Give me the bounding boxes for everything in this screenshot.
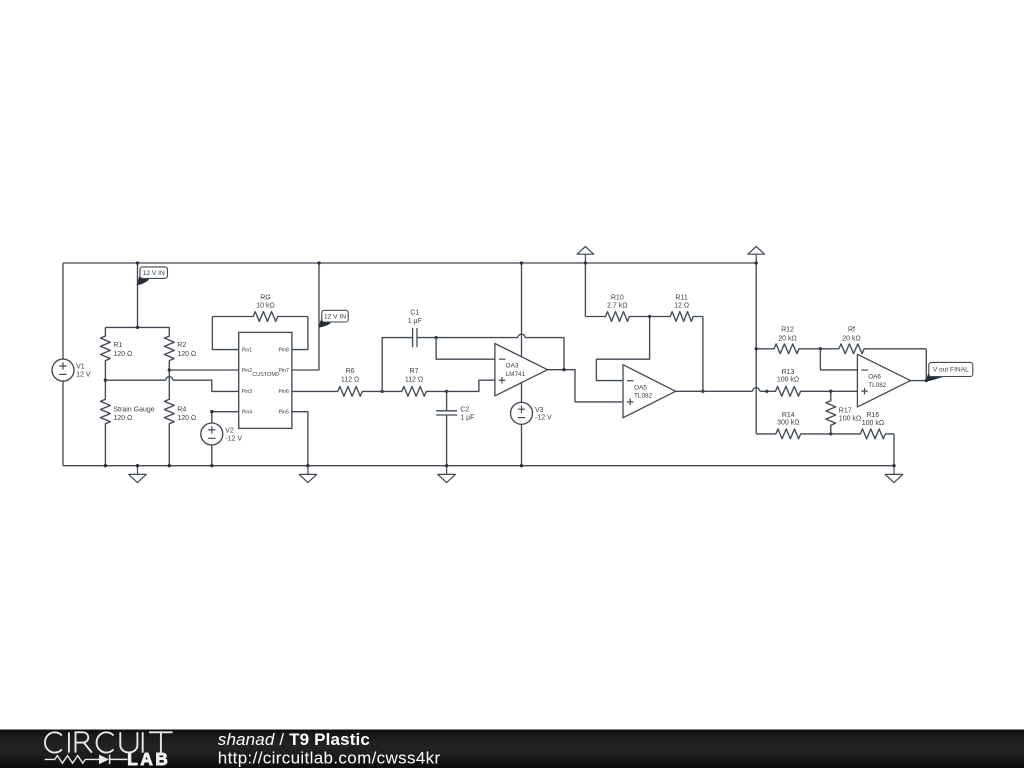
wire Pin4 to V2 [212,412,239,423]
ground (Pin5) [299,466,317,483]
node pwr flag left [584,261,587,264]
svg-text:12 V IN: 12 V IN [143,270,165,277]
wire 12V IN drop to bridge [137,263,139,327]
svg-text:R13: R13 [782,369,795,376]
wire to OA3 plus [447,380,495,391]
svg-text:R14: R14 [782,412,795,419]
wire V2 minus to bottom rail [211,445,213,466]
wire R12 node to OA6 minus [820,349,857,370]
svg-text:120 Ω: 120 Ω [113,415,132,422]
node Pin7 net / top rail [317,261,320,264]
capacitor C2 [446,391,448,410]
wire C1 branch up [382,338,412,392]
voltage source V2 [201,423,223,445]
svg-text:C2: C2 [460,407,469,414]
capacitor C1 [413,328,417,347]
wire left branch from V1 to top rail [62,263,64,359]
svg-text:Rf: Rf [848,326,855,333]
svg-text:LAB: LAB [127,749,170,768]
op-amp OA6 [857,354,910,407]
wire Pin7 to 12V IN [292,263,319,370]
resistor R1 [101,327,111,380]
wire C1 to OA3 minus [436,338,495,360]
svg-text:100 kΩ: 100 kΩ [839,415,861,422]
svg-text:LM741: LM741 [506,371,526,378]
svg-text:10 kΩ: 10 kΩ [256,303,274,310]
wire bottom ground rail [63,465,894,467]
svg-text:R2: R2 [177,342,186,349]
resistor R7 [382,387,446,397]
resistor R17 (vertical) [826,391,836,434]
wire Rf feedback down to OA6 out [925,349,927,381]
resistor R10 [585,312,649,322]
node R17/R14 [829,432,832,435]
node R12/Rf/OA6- [819,347,822,350]
ground (right) [885,466,903,483]
footer bar background [0,730,1024,768]
svg-text:2.7 kΩ: 2.7 kΩ [607,303,627,310]
svg-text:300 kΩ: 300 kΩ [777,419,799,426]
wire R11 down to OA5 output [702,317,704,392]
svg-text:112 Ω: 112 Ω [341,376,359,383]
flag 12 V IN (left) [137,273,149,285]
node R11/OA5 out [701,390,704,393]
svg-text:120 Ω: 120 Ω [113,351,132,358]
wire OA3 V+ from top rail [521,263,523,357]
svg-text:shanad / T9 Plastic: shanad / T9 Plastic [218,730,370,749]
wire rail to R10 [584,263,586,317]
flag V out FINAL [926,371,946,381]
node Pin5/bottom rail [306,464,309,467]
node R16/bottom rail [892,464,895,467]
node OA3 V+/top rail [520,261,523,264]
wire bridge left output to Pin3 (hops R2 column) [105,380,238,391]
svg-text:1 µF: 1 µF [460,414,474,421]
node top rail / 12V drop [136,261,139,264]
logo resistor squiggle [45,756,99,764]
svg-text:-12 V: -12 V [225,435,242,442]
resistor Rf [820,344,926,354]
wire V1 minus to bottom rail [62,381,64,466]
resistor R14 [756,429,831,439]
node R2/R4 junction [168,368,171,371]
svg-text:http://circuitlab.com/cwss4kr: http://circuitlab.com/cwss4kr [218,748,441,767]
resistor R11 [650,312,703,322]
node R6/R7/C1 [381,390,384,393]
resistor R2 [164,327,174,370]
wire bridge right output to Pin2 [169,369,238,371]
svg-text:C1: C1 [410,310,419,317]
svg-text:R11: R11 [675,294,687,301]
svg-text:TL082: TL082 [634,393,653,400]
svg-text:100 kΩ: 100 kΩ [777,376,799,383]
ground (left) [129,466,147,483]
node V3/bottom rail [520,464,523,467]
node R4/bottom rail [168,464,171,467]
node pwr flag right [755,261,758,264]
resistor R4 [164,370,174,466]
node C1 / OA3- branch [434,336,437,339]
svg-text:R7: R7 [410,368,419,375]
wire feedback to OA3 output (hops V+ wire) [436,338,564,370]
flag 12 V IN (right) [319,317,332,327]
wire OA5 output to R13 (hops +12 wire) [676,390,767,392]
svg-text:V2: V2 [225,428,234,435]
svg-text:OA3: OA3 [506,363,519,370]
svg-text:12 V IN: 12 V IN [324,313,346,320]
svg-text:RG: RG [260,294,271,301]
node R13/R17 [829,390,832,393]
wire Pin1 to RG loop left [212,317,238,350]
resistor R13 [767,386,858,396]
svg-text:20 kΩ: 20 kΩ [778,336,796,343]
node OA3 out/feedback [562,368,565,371]
wire R10/R11 node to OA5 minus [596,317,649,381]
ground (C2) [438,466,456,483]
svg-text:1 µF: 1 µF [408,318,422,325]
node Pin4/V2 [210,410,213,413]
svg-text:Pin5: Pin5 [279,410,289,416]
svg-text:V3: V3 [535,407,544,414]
svg-text:OA6: OA6 [868,374,881,381]
node R1/SG junction [104,379,107,382]
svg-text:Pin2: Pin2 [242,368,252,374]
svg-text:Pin4: Pin4 [242,410,252,416]
svg-text:OA5: OA5 [634,384,647,391]
node R10/R11 [648,315,651,318]
power flag +12V (left) [577,247,594,264]
svg-text:12 V: 12 V [76,372,91,379]
voltage source V1 [52,359,74,381]
svg-text:R1: R1 [113,342,122,349]
svg-text:Pin8: Pin8 [279,347,289,353]
wire top +12V rail [63,262,756,264]
svg-text:V1: V1 [76,364,85,371]
svg-text:V out FINAL: V out FINAL [933,367,969,374]
svg-text:20 kΩ: 20 kΩ [842,336,860,343]
resistor R16 [831,429,894,439]
wire OA3 V- to V3 [521,383,523,403]
voltage source V3 [511,402,533,424]
svg-text:TL082: TL082 [868,382,887,389]
svg-text:100 kΩ: 100 kΩ [862,420,884,427]
node ground left [136,464,139,467]
svg-text:R6: R6 [346,368,355,375]
logo CIRCUIT letters (custom thin strokes) [45,732,173,752]
svg-text:Pin7: Pin7 [279,368,289,374]
node OA6 out [925,379,928,382]
svg-text:Pin6: Pin6 [279,389,289,395]
wire OA6 output [911,380,927,382]
wire Pin5 down to ground rail [292,412,308,466]
wire bridge top [105,326,169,328]
node +12/R12 [755,347,758,350]
wire R16 down to bottom rail [893,434,895,466]
op-amp OA3 [495,344,548,396]
resistor R12 [756,344,820,354]
svg-text:R16: R16 [866,412,879,419]
svg-text:120 Ω: 120 Ω [177,351,196,358]
node SG/bottom rail [104,464,107,467]
logo diode [99,755,109,765]
svg-text:12 Ω: 12 Ω [674,303,689,310]
node V2/bottom rail [210,464,213,467]
svg-text:Pin1: Pin1 [242,347,252,353]
IC U1 CUSTOM0 body [239,332,292,428]
svg-text:112 Ω: 112 Ω [405,376,423,383]
op-amp OA5 [623,365,676,418]
resistor RG [212,312,308,322]
svg-text:R17: R17 [839,408,852,415]
power flag +12V (right) [748,247,765,264]
wire OA3 output to OA5 plus [548,370,624,402]
node bridge top [136,326,139,329]
wire V3 to bottom rail [521,424,523,465]
resistor R6 [292,387,382,397]
svg-text:R10: R10 [611,294,624,301]
wire +12 branch down right [755,263,757,434]
svg-text:Pin3: Pin3 [242,389,252,395]
node OA5 out net/R13 [765,390,768,393]
svg-text:CUSTOM0: CUSTOM0 [252,372,279,378]
svg-text:120 Ω: 120 Ω [177,415,196,422]
svg-text:R4: R4 [177,406,186,413]
node R7/C2/OA3+ [445,390,448,393]
node C2/bottom rail [445,464,448,467]
svg-text:-12 V: -12 V [535,415,552,422]
wire RG right to Pin8 [292,317,308,350]
svg-text:R12: R12 [781,326,794,333]
resistor Strain Gauge [101,380,111,466]
svg-text:Strain Gauge: Strain Gauge [113,406,154,413]
